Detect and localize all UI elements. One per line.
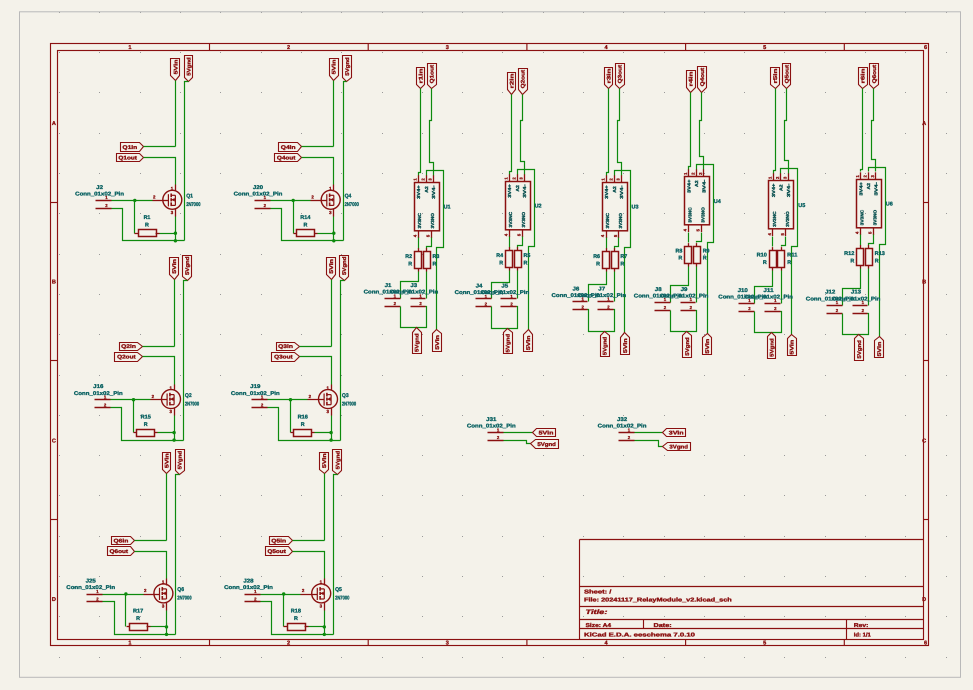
- wire: [772, 237, 774, 247]
- wire: [843, 314, 869, 335]
- svg-text:5Vgnd: 5Vgnd: [769, 338, 775, 357]
- svg-text:A2: A2: [612, 186, 617, 193]
- svg-text:J13: J13: [851, 290, 861, 296]
- power label 5Vin (module 4): [703, 334, 712, 355]
- svg-text:Q1out: Q1out: [118, 155, 137, 161]
- global label r2in: [508, 73, 516, 95]
- wire: [492, 307, 518, 329]
- wire: [151, 626, 167, 628]
- wire: [174, 280, 176, 347]
- resistor R6: [593, 248, 609, 271]
- svg-text:R15: R15: [141, 414, 151, 420]
- junction: [282, 592, 285, 595]
- svg-text:Q6out: Q6out: [872, 65, 878, 84]
- wire: [290, 400, 292, 433]
- svg-text:Date:: Date:: [654, 623, 672, 629]
- global label Q4out: [698, 67, 707, 93]
- svg-text:A: A: [922, 121, 926, 127]
- power label 5Vin (Q3 circuit): [327, 258, 336, 280]
- connector J12: [806, 290, 855, 314]
- svg-text:6: 6: [924, 45, 927, 51]
- svg-text:Q5in: Q5in: [271, 539, 286, 545]
- junction: [329, 431, 332, 434]
- relay U5: [767, 173, 805, 236]
- connector J1: [364, 283, 413, 307]
- svg-text:A2: A2: [515, 185, 520, 192]
- svg-text:r6in: r6in: [861, 69, 867, 84]
- svg-text:J28: J28: [243, 579, 253, 585]
- junction: [332, 239, 335, 242]
- wire: [504, 441, 531, 444]
- wire: [324, 474, 326, 541]
- connector J4: [455, 284, 504, 307]
- junction: [329, 438, 332, 441]
- svg-text:Q2out: Q2out: [117, 355, 136, 361]
- junction: [332, 232, 335, 235]
- svg-text:R5: R5: [524, 253, 531, 259]
- wire: [492, 271, 510, 299]
- svg-text:3V4-: 3V4-: [701, 179, 706, 193]
- resistor R12: [844, 245, 863, 268]
- svg-text:J16: J16: [93, 384, 103, 390]
- svg-text:2: 2: [287, 640, 290, 646]
- svg-text:3V3NC: 3V3NC: [859, 209, 864, 225]
- wire: [300, 357, 332, 385]
- wire: [144, 146, 176, 148]
- wire: [427, 171, 444, 330]
- power label 5Vgnd (module 5): [768, 333, 776, 359]
- svg-text:3: 3: [446, 45, 449, 51]
- svg-text:Q5out: Q5out: [267, 549, 286, 555]
- svg-text:3V4+: 3V4+: [416, 185, 421, 199]
- svg-text:3Vin: 3Vin: [669, 430, 684, 436]
- svg-text:Q3out: Q3out: [618, 65, 624, 84]
- svg-text:Q4in: Q4in: [281, 145, 296, 151]
- wire: [589, 272, 607, 302]
- svg-text:R: R: [499, 260, 503, 266]
- svg-text:R: R: [145, 223, 149, 229]
- wire: [175, 217, 177, 241]
- svg-text:R: R: [303, 223, 307, 229]
- svg-text:R: R: [136, 616, 140, 622]
- wire: [700, 93, 704, 170]
- resistor R11: [778, 247, 798, 270]
- resistor R18: [284, 609, 309, 631]
- svg-text:R7: R7: [620, 254, 627, 260]
- svg-text:B: B: [922, 280, 926, 286]
- svg-text:U1: U1: [444, 205, 451, 211]
- svg-text:R: R: [850, 258, 854, 264]
- svg-text:R9: R9: [703, 248, 710, 254]
- svg-text:J6: J6: [573, 286, 580, 292]
- svg-text:2N7000: 2N7000: [177, 596, 191, 602]
- global label Q2out: [519, 69, 528, 95]
- svg-text:5Vgnd: 5Vgnd: [537, 442, 556, 448]
- wire: [401, 307, 427, 328]
- svg-text:J8: J8: [655, 287, 662, 293]
- wire: [418, 238, 420, 249]
- wire: [315, 432, 332, 434]
- svg-text:5Vin: 5Vin: [877, 342, 883, 357]
- svg-text:R: R: [408, 262, 412, 268]
- connector J16: [74, 384, 123, 407]
- svg-text:B: B: [52, 280, 56, 286]
- svg-text:3Vgnd: 3Vgnd: [669, 444, 688, 450]
- connector J32: [598, 417, 647, 441]
- wire: [293, 552, 325, 579]
- wire: [341, 281, 345, 441]
- svg-text:J32: J32: [617, 417, 627, 423]
- svg-text:3V3NC: 3V3NC: [687, 206, 692, 222]
- svg-text:5: 5: [763, 45, 766, 51]
- connector J28: [224, 579, 273, 602]
- svg-text:3V4-: 3V4-: [431, 185, 436, 199]
- svg-text:5Vin: 5Vin: [173, 60, 179, 75]
- svg-text:C: C: [52, 438, 56, 444]
- svg-text:J11: J11: [763, 288, 773, 294]
- svg-text:J10: J10: [738, 288, 748, 294]
- svg-text:2N7000: 2N7000: [342, 401, 356, 407]
- junction: [292, 199, 295, 202]
- junction: [165, 625, 168, 628]
- svg-text:3V4+: 3V4+: [771, 183, 776, 197]
- wire: [696, 267, 698, 303]
- svg-text:U3: U3: [632, 205, 639, 211]
- power label 5Vgnd (Q1 circuit): [185, 56, 193, 82]
- global label Q5in: [270, 537, 293, 545]
- wire: [143, 357, 175, 385]
- svg-text:5Vin: 5Vin: [435, 335, 441, 350]
- svg-text:3V3NC: 3V3NC: [605, 212, 610, 228]
- wire: [618, 89, 622, 176]
- svg-text:Conn_01x02_Pin: Conn_01x02_Pin: [598, 424, 647, 430]
- power label 5Vgnd (module 4): [683, 332, 692, 358]
- svg-text:3V4+: 3V4+: [686, 179, 691, 193]
- global label Q6out: [108, 547, 135, 556]
- power label 5Vgnd (module 6): [855, 335, 864, 361]
- wire: [671, 311, 697, 332]
- svg-text:Conn_01x02_Pin: Conn_01x02_Pin: [480, 290, 529, 296]
- wire: [331, 280, 333, 347]
- svg-text:R10: R10: [757, 252, 767, 258]
- connector J2: [75, 185, 124, 209]
- svg-text:3V4+: 3V4+: [507, 184, 512, 198]
- junction: [132, 398, 135, 401]
- svg-text:5Vgnd: 5Vgnd: [685, 337, 691, 356]
- wire: [268, 408, 341, 441]
- svg-text:3V3NO: 3V3NO: [430, 212, 435, 228]
- junction: [174, 239, 177, 242]
- global label Q1out: [428, 64, 437, 89]
- svg-text:R: R: [703, 256, 707, 262]
- svg-text:2: 2: [287, 45, 290, 51]
- power label 5Vin (Q5 circuit): [320, 453, 329, 474]
- resistor R13: [866, 245, 885, 268]
- wire: [872, 89, 876, 172]
- connector J31: [467, 417, 516, 441]
- svg-text:Conn_01x02_Pin: Conn_01x02_Pin: [231, 391, 280, 397]
- wire: [868, 269, 870, 306]
- svg-text:3V3NC: 3V3NC: [417, 212, 422, 228]
- wire: [125, 595, 127, 627]
- svg-text:J4: J4: [476, 284, 483, 290]
- wire: [111, 399, 151, 401]
- svg-text:J25: J25: [86, 579, 96, 585]
- power label 5Vgnd (Q3 circuit): [340, 256, 349, 281]
- svg-text:5Vin: 5Vin: [322, 453, 328, 468]
- connector J9: [660, 287, 709, 311]
- svg-text:File: 20241117_RelayModule_v2.: File: 20241117_RelayModule_v2.kicad_sch: [584, 597, 733, 604]
- svg-text:R3: R3: [433, 254, 440, 260]
- svg-text:Conn_01x02_Pin: Conn_01x02_Pin: [744, 295, 793, 301]
- svg-text:Id: 1/1: Id: 1/1: [854, 632, 871, 639]
- transistor Q6: [144, 579, 192, 611]
- wire: [607, 89, 609, 176]
- power label 5Vin (Q6 circuit): [163, 453, 171, 474]
- global label r5in: [771, 68, 780, 89]
- svg-text:5Vin: 5Vin: [329, 259, 335, 274]
- wire: [671, 267, 689, 303]
- svg-text:5Vin: 5Vin: [526, 336, 532, 351]
- wire: [334, 475, 338, 635]
- svg-text:5Vgnd: 5Vgnd: [185, 257, 191, 276]
- resistor R17: [127, 609, 151, 631]
- svg-text:5Vgnd: 5Vgnd: [857, 340, 863, 359]
- global label Q3out: [616, 64, 625, 89]
- global label Q3in: [277, 343, 300, 351]
- resistor R2: [405, 248, 421, 271]
- wire: [135, 540, 167, 542]
- junction: [172, 431, 175, 434]
- svg-text:5Vgnd: 5Vgnd: [415, 333, 421, 352]
- svg-text:R8: R8: [676, 248, 683, 254]
- wire: [261, 594, 301, 596]
- transistor Q4: [311, 185, 359, 217]
- power label 5Vgnd (Q4 circuit): [343, 56, 352, 82]
- wire: [869, 235, 874, 246]
- svg-text:Conn_01x02_Pin: Conn_01x02_Pin: [224, 585, 273, 591]
- wire: [635, 441, 663, 447]
- wire: [869, 168, 886, 337]
- connector J13: [832, 290, 881, 314]
- wire: [158, 432, 175, 434]
- svg-text:5Vin: 5Vin: [172, 259, 178, 274]
- svg-text:R: R: [678, 256, 682, 262]
- svg-text:5Vin: 5Vin: [332, 60, 338, 75]
- svg-text:r3in: r3in: [606, 69, 612, 84]
- wire: [755, 312, 782, 333]
- svg-text:C: C: [922, 438, 926, 444]
- global label r6in: [859, 68, 868, 89]
- wire: [333, 217, 335, 241]
- junction: [289, 398, 292, 401]
- power label 5Vgnd (Q5 circuit): [333, 450, 342, 475]
- wire: [112, 200, 153, 202]
- svg-text:Q6out: Q6out: [110, 549, 129, 555]
- power label 5Vgnd (module 3): [601, 332, 610, 357]
- svg-text:D: D: [52, 597, 56, 603]
- global label Q6in: [112, 537, 135, 545]
- svg-text:Conn_01x02_Pin: Conn_01x02_Pin: [577, 293, 626, 299]
- svg-text:J3: J3: [410, 283, 417, 289]
- svg-text:1: 1: [128, 45, 131, 51]
- resistor R14: [294, 215, 318, 236]
- wire: [174, 416, 176, 441]
- wire: [344, 82, 347, 241]
- svg-text:Conn_01x02_Pin: Conn_01x02_Pin: [74, 391, 123, 397]
- wire: [781, 271, 783, 304]
- svg-text:3V4-: 3V4-: [522, 183, 527, 197]
- resistor R10: [757, 247, 777, 270]
- svg-text:3V3NO: 3V3NO: [521, 211, 526, 227]
- wire: [271, 209, 344, 241]
- svg-text:R1: R1: [144, 215, 151, 221]
- power label 5Vgnd (module 1): [413, 328, 422, 354]
- connector J5: [480, 284, 529, 307]
- svg-text:3V3NC: 3V3NC: [508, 211, 513, 227]
- svg-text:5Vin: 5Vin: [790, 340, 796, 355]
- wire: [606, 238, 608, 249]
- wire: [324, 611, 326, 635]
- junction: [133, 199, 136, 202]
- svg-text:J31: J31: [486, 417, 496, 423]
- wire: [688, 233, 690, 243]
- svg-text:5: 5: [763, 640, 766, 646]
- svg-text:U4: U4: [714, 199, 721, 205]
- wire: [268, 399, 308, 401]
- svg-text:2N7000: 2N7000: [185, 401, 199, 407]
- junction: [124, 592, 127, 595]
- relay U2: [503, 174, 541, 237]
- wire: [697, 233, 702, 243]
- svg-text:Q1out: Q1out: [430, 65, 436, 84]
- title block: [580, 540, 924, 640]
- svg-text:r2in: r2in: [510, 74, 516, 89]
- wire: [103, 594, 144, 596]
- wire: [166, 474, 168, 541]
- svg-text:5Vgnd: 5Vgnd: [335, 451, 341, 470]
- wire: [111, 408, 184, 441]
- global label Q1out: [117, 154, 144, 162]
- svg-text:2N7000: 2N7000: [335, 596, 349, 602]
- transistor Q3: [308, 385, 357, 416]
- svg-text:3V4+: 3V4+: [858, 182, 863, 196]
- wire: [419, 89, 421, 176]
- global label Q5out: [783, 64, 791, 89]
- svg-text:Size: A4: Size: A4: [586, 622, 613, 629]
- wire: [588, 310, 615, 332]
- svg-text:R18: R18: [291, 609, 301, 615]
- svg-text:Rev:: Rev:: [854, 623, 869, 629]
- svg-text:5Vgnd: 5Vgnd: [178, 451, 184, 470]
- svg-text:5Vgnd: 5Vgnd: [506, 334, 512, 353]
- svg-text:A: A: [52, 121, 56, 127]
- svg-text:3V4+: 3V4+: [604, 185, 609, 199]
- wire: [271, 200, 311, 202]
- connector J19: [231, 384, 280, 407]
- wire: [521, 95, 525, 175]
- svg-text:KiCad E.D.A. eeschema 7.0.10: KiCad E.D.A. eeschema 7.0.10: [584, 632, 695, 639]
- svg-text:3V4-: 3V4-: [873, 181, 878, 195]
- svg-text:5Vin: 5Vin: [164, 453, 170, 468]
- svg-text:A2: A2: [866, 182, 871, 189]
- power label 5Vin (module 6): [875, 337, 884, 358]
- svg-text:R14: R14: [300, 215, 310, 221]
- svg-text:Q4out: Q4out: [277, 155, 296, 161]
- wire: [166, 611, 168, 635]
- wire: [184, 281, 188, 441]
- svg-text:Q3in: Q3in: [278, 344, 293, 350]
- wire: [509, 237, 511, 248]
- svg-text:Q1: Q1: [186, 194, 193, 200]
- wire: [143, 346, 175, 348]
- svg-text:Sheet: /: Sheet: /: [584, 588, 612, 595]
- transistor Q2: [151, 385, 200, 416]
- power label 5Vin (module 3): [621, 333, 630, 355]
- svg-text:Q2out: Q2out: [521, 70, 527, 89]
- svg-text:U2: U2: [535, 204, 542, 210]
- global label Q2in: [120, 343, 143, 351]
- svg-text:5Vgnd: 5Vgnd: [345, 57, 351, 76]
- power label 3Vin (J32): [663, 429, 686, 437]
- wire: [261, 602, 334, 635]
- svg-text:R: R: [433, 262, 437, 268]
- svg-text:6: 6: [924, 640, 927, 646]
- wire: [860, 235, 862, 246]
- svg-text:3V4-: 3V4-: [786, 183, 791, 197]
- global label r3in: [605, 68, 613, 89]
- svg-text:Q5: Q5: [335, 587, 342, 593]
- wire: [755, 271, 773, 304]
- resistor R8: [676, 243, 692, 266]
- wire: [510, 95, 512, 175]
- wire: [293, 201, 295, 234]
- power label 5Vgnd (Q6 circuit): [176, 450, 185, 475]
- svg-text:Conn_01x02_Pin: Conn_01x02_Pin: [75, 192, 124, 198]
- junction: [172, 438, 175, 441]
- global label Q4out: [275, 154, 302, 162]
- svg-text:Q3: Q3: [342, 393, 349, 399]
- svg-text:R11: R11: [787, 252, 797, 258]
- svg-text:3V3NO: 3V3NO: [785, 211, 790, 227]
- svg-text:3V3NO: 3V3NO: [872, 209, 877, 225]
- svg-text:R: R: [524, 260, 528, 266]
- wire: [614, 272, 616, 302]
- svg-text:3V3NO: 3V3NO: [618, 212, 623, 228]
- svg-text:R: R: [787, 260, 791, 266]
- wire: [176, 475, 180, 635]
- svg-text:J19: J19: [250, 384, 260, 390]
- power label 5Vgnd (J31): [531, 440, 559, 449]
- resistor R3: [424, 248, 440, 271]
- svg-text:Q4out: Q4out: [700, 68, 706, 87]
- svg-text:Q1in: Q1in: [122, 145, 137, 151]
- svg-text:R: R: [294, 616, 298, 622]
- svg-text:3V3NC: 3V3NC: [772, 210, 777, 226]
- global label Q1in: [121, 143, 144, 152]
- svg-text:5Vgnd: 5Vgnd: [603, 337, 609, 356]
- resistor R4: [496, 247, 512, 270]
- wire: [518, 237, 523, 248]
- wire: [518, 170, 535, 330]
- relay U1: [412, 175, 450, 238]
- wire: [843, 269, 861, 306]
- svg-text:R16: R16: [298, 414, 308, 420]
- svg-text:2N7000: 2N7000: [345, 202, 359, 208]
- global label Q6out: [870, 64, 879, 89]
- wire: [293, 540, 325, 542]
- power label 5Vgnd (Q2 circuit): [183, 256, 192, 281]
